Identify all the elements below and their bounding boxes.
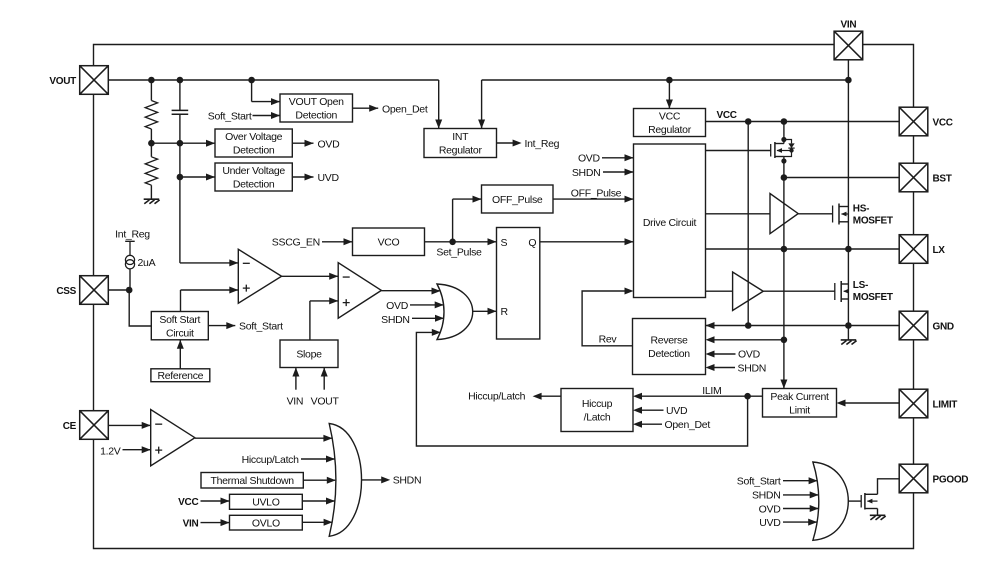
svg-text:Soft_Start: Soft_Start bbox=[737, 475, 781, 487]
svg-text:OVLO: OVLO bbox=[252, 517, 280, 529]
svg-text:MOSFET: MOSFET bbox=[853, 292, 893, 303]
svg-text:OVD: OVD bbox=[578, 153, 601, 165]
svg-text:Peak Current: Peak Current bbox=[770, 391, 829, 403]
svg-text:Reference: Reference bbox=[157, 370, 203, 382]
svg-text:VCO: VCO bbox=[378, 237, 400, 249]
svg-text:ILIM: ILIM bbox=[702, 385, 721, 397]
svg-text:Int_Reg: Int_Reg bbox=[115, 228, 150, 240]
svg-text:VIN: VIN bbox=[287, 395, 304, 407]
svg-text:Detection: Detection bbox=[295, 110, 337, 122]
svg-text:VCC: VCC bbox=[178, 497, 198, 508]
svg-text:CE: CE bbox=[63, 421, 77, 432]
svg-text:S: S bbox=[501, 237, 508, 249]
svg-text:LIMIT: LIMIT bbox=[933, 399, 958, 410]
svg-text:GND: GND bbox=[933, 321, 954, 332]
svg-text:OFF_Pulse: OFF_Pulse bbox=[571, 187, 622, 199]
svg-text:Thermal Shutdown: Thermal Shutdown bbox=[210, 475, 294, 487]
svg-text:PGOOD: PGOOD bbox=[933, 474, 969, 485]
svg-text:Detection: Detection bbox=[648, 348, 690, 360]
svg-text:Circuit: Circuit bbox=[166, 327, 194, 339]
svg-text:Soft_Start: Soft_Start bbox=[239, 320, 283, 332]
svg-text:INT: INT bbox=[452, 131, 469, 143]
svg-text:VOUT: VOUT bbox=[49, 76, 76, 87]
svg-text:Set_Pulse: Set_Pulse bbox=[436, 246, 482, 258]
svg-text:Drive Circuit: Drive Circuit bbox=[643, 217, 697, 229]
svg-text:Soft Start: Soft Start bbox=[159, 314, 200, 326]
svg-text:HS-: HS- bbox=[853, 204, 869, 215]
svg-text:SSCG_EN: SSCG_EN bbox=[272, 236, 320, 248]
svg-text:Hiccup: Hiccup bbox=[582, 398, 613, 410]
svg-text:UVD: UVD bbox=[759, 517, 781, 529]
svg-text:VOUT Open: VOUT Open bbox=[289, 96, 344, 108]
svg-text:Reverse: Reverse bbox=[651, 335, 688, 347]
svg-text:Q: Q bbox=[528, 237, 536, 249]
svg-text:VIN: VIN bbox=[183, 519, 199, 530]
svg-text:Open_Det: Open_Det bbox=[382, 104, 428, 116]
svg-text:/Latch: /Latch bbox=[584, 412, 611, 424]
svg-text:UVD: UVD bbox=[318, 172, 340, 184]
svg-text:MOSFET: MOSFET bbox=[853, 216, 893, 227]
svg-text:Under Voltage: Under Voltage bbox=[222, 165, 285, 177]
svg-text:VOUT: VOUT bbox=[311, 395, 340, 407]
svg-text:Regulator: Regulator bbox=[648, 124, 692, 136]
svg-text:Hiccup/Latch: Hiccup/Latch bbox=[468, 391, 526, 403]
svg-text:BST: BST bbox=[933, 173, 952, 184]
svg-text:OFF_Pulse: OFF_Pulse bbox=[492, 194, 543, 206]
svg-text:OVD: OVD bbox=[318, 138, 341, 150]
svg-text:Regulator: Regulator bbox=[439, 145, 483, 157]
svg-text:SHDN: SHDN bbox=[738, 362, 767, 374]
svg-text:1.2V: 1.2V bbox=[100, 445, 121, 457]
svg-text:LS-: LS- bbox=[853, 280, 868, 291]
svg-text:VCC: VCC bbox=[717, 110, 737, 121]
svg-text:Int_Reg: Int_Reg bbox=[525, 138, 560, 150]
svg-text:SHDN: SHDN bbox=[381, 314, 410, 326]
svg-text:Detection: Detection bbox=[233, 145, 275, 157]
svg-text:Hiccup/Latch: Hiccup/Latch bbox=[242, 454, 300, 466]
svg-text:SHDN: SHDN bbox=[572, 167, 601, 179]
svg-text:Slope: Slope bbox=[296, 349, 322, 361]
svg-text:OVD: OVD bbox=[386, 300, 409, 312]
svg-text:VCC: VCC bbox=[659, 111, 681, 123]
svg-text:SHDN: SHDN bbox=[752, 489, 781, 501]
svg-text:VIN: VIN bbox=[841, 20, 857, 31]
svg-text:R: R bbox=[501, 306, 509, 318]
svg-text:UVD: UVD bbox=[666, 405, 688, 417]
svg-text:SHDN: SHDN bbox=[393, 475, 422, 487]
svg-text:Rev: Rev bbox=[599, 334, 618, 346]
svg-text:Soft_Start: Soft_Start bbox=[208, 111, 252, 123]
svg-text:OVD: OVD bbox=[759, 503, 782, 515]
svg-text:LX: LX bbox=[933, 245, 946, 256]
svg-text:OVD: OVD bbox=[738, 349, 761, 361]
svg-text:UVLO: UVLO bbox=[252, 497, 280, 509]
svg-text:Detection: Detection bbox=[233, 179, 275, 191]
svg-text:2uA: 2uA bbox=[138, 257, 156, 269]
svg-text:VCC: VCC bbox=[933, 117, 953, 128]
svg-text:Limit: Limit bbox=[789, 404, 810, 416]
svg-text:Open_Det: Open_Det bbox=[665, 419, 711, 431]
svg-text:Over Voltage: Over Voltage bbox=[225, 131, 283, 143]
svg-text:CSS: CSS bbox=[56, 286, 76, 297]
